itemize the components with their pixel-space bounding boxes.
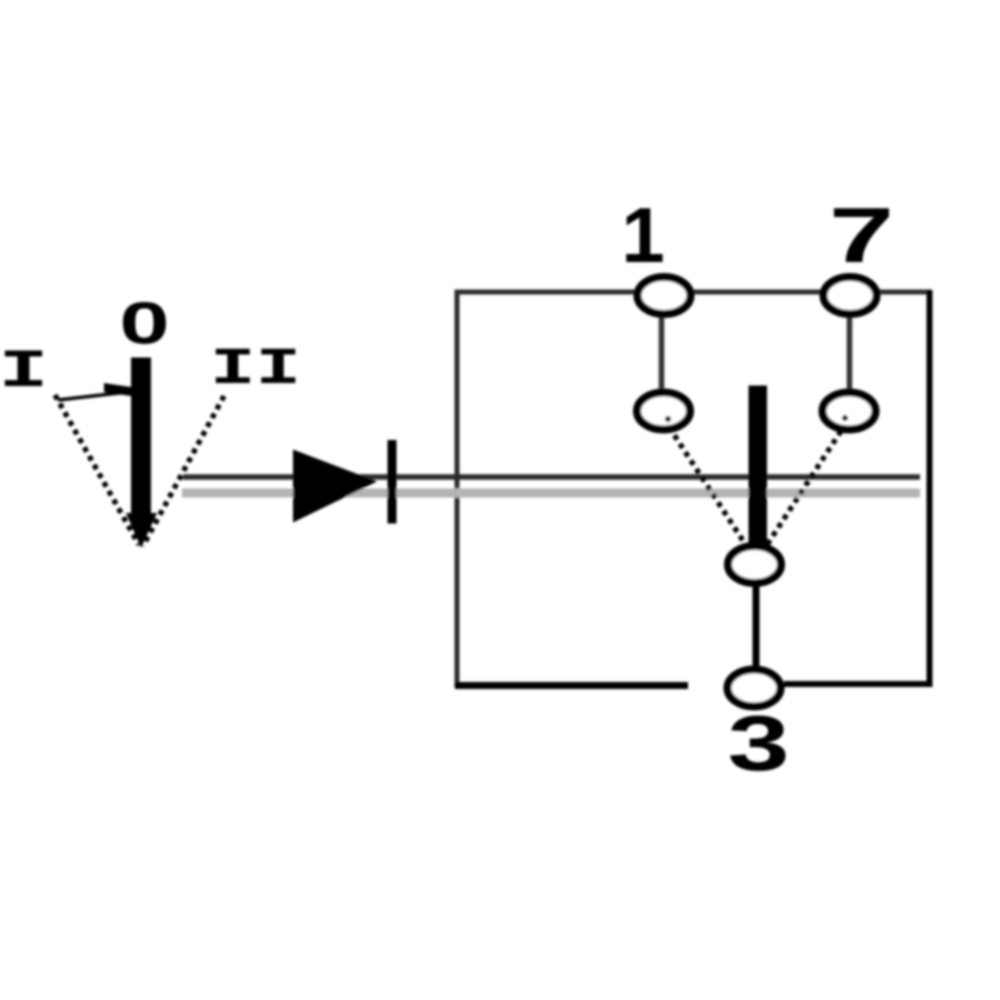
wire: box bottom edge right segment bbox=[784, 681, 932, 687]
wire common to pin 3 bbox=[753, 566, 760, 686]
terminal circle pin 3 bbox=[728, 670, 781, 707]
actuator plunger bar bbox=[749, 386, 768, 546]
svg-text:3: 3 bbox=[727, 700, 789, 787]
wire: switch body box top edge bbox=[455, 290, 931, 295]
wire: switch body box right edge bbox=[927, 290, 933, 687]
lever actuator arrowhead bbox=[126, 513, 157, 548]
wire: switch body box left edge bbox=[455, 290, 460, 688]
contact arm dashed left bbox=[669, 427, 751, 553]
terminal circle pin 1 bbox=[638, 277, 691, 314]
common contact circle bbox=[728, 546, 781, 583]
mechanical link lower gray line bbox=[182, 489, 920, 498]
wire: box bottom edge left segment bbox=[455, 682, 688, 689]
detent stop bar bbox=[388, 440, 397, 524]
wire pin1 to moving contact bbox=[659, 295, 665, 410]
contact arm dashed right bbox=[763, 431, 841, 551]
moving contact circle right bbox=[823, 393, 876, 430]
wire pin7 to moving contact bbox=[847, 295, 853, 411]
moving contact circle left bbox=[637, 393, 690, 430]
detent arrow triangle bbox=[293, 450, 377, 523]
position pointer shaft bbox=[58, 392, 128, 400]
lever travel dashed leg right (position II) bbox=[143, 396, 224, 546]
position pointer arrowhead bbox=[104, 383, 131, 396]
svg-text:II: II bbox=[210, 340, 301, 399]
svg-text:7: 7 bbox=[829, 192, 894, 279]
terminal circle pin 7 bbox=[824, 277, 877, 314]
svg-text:1: 1 bbox=[621, 191, 664, 279]
lever actuator arrow shaft bbox=[131, 358, 151, 518]
speck inside right contact circle bbox=[842, 415, 848, 421]
mechanical link upper black line bbox=[183, 474, 920, 480]
speck inside left contact circle bbox=[665, 416, 671, 422]
lever travel dashed leg left (position I) bbox=[55, 395, 139, 545]
svg-text:0: 0 bbox=[119, 291, 169, 357]
svg-text:I: I bbox=[0, 342, 48, 403]
